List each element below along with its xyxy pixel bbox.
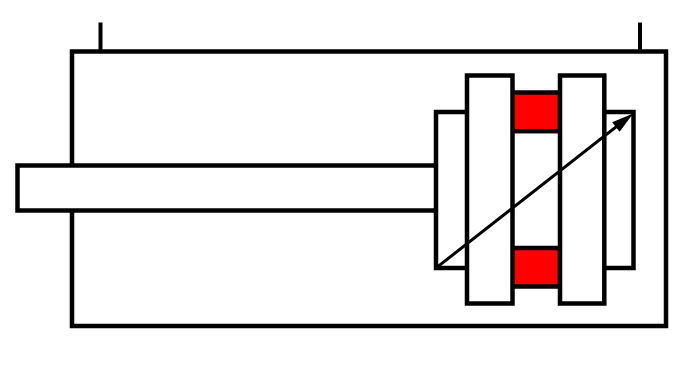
coil winding bottom (513, 248, 561, 287)
coil winding top (513, 93, 561, 132)
shaft plunger (18, 166, 438, 211)
flange left (436, 112, 485, 268)
plate right (560, 76, 604, 304)
housing body (72, 52, 666, 327)
adjustment arrow (436, 114, 633, 269)
flange right (585, 112, 634, 268)
terminal pin left (99, 23, 103, 52)
terminal pin right (638, 23, 642, 52)
plate left (467, 76, 513, 304)
